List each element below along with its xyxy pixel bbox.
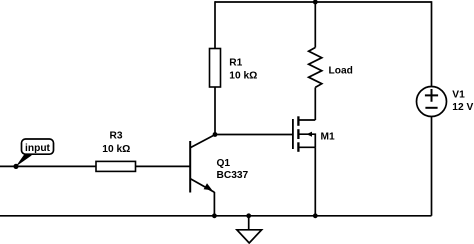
svg-text:R1: R1 bbox=[229, 58, 242, 69]
V1 plus sign bbox=[425, 89, 438, 102]
transistor Q1 collector diagonal bbox=[190, 135, 215, 148]
mosfet M1 channel bar bottom bbox=[297, 142, 299, 152]
node collector/gate junction bbox=[213, 132, 218, 137]
svg-text:10 kΩ: 10 kΩ bbox=[229, 71, 257, 82]
wire gate (node to M1 gate) bbox=[215, 134, 292, 136]
wire Q1 emitter down bbox=[213, 192, 215, 216]
svg-text:V1: V1 bbox=[452, 90, 465, 101]
wire Load branch top bbox=[314, 1, 316, 47]
mosfet M1 drain connection bbox=[298, 119, 315, 121]
svg-text:Load: Load bbox=[329, 65, 353, 76]
svg-text:M1: M1 bbox=[321, 131, 335, 142]
resistor R1 (box) bbox=[210, 49, 221, 88]
mosfet M1 source connection bbox=[298, 146, 315, 148]
wire top rail bbox=[215, 1, 432, 3]
wire V1 bottom bbox=[431, 116, 433, 215]
voltage source V1 circle bbox=[417, 87, 447, 117]
transistor Q1 base bar bbox=[189, 141, 191, 193]
ground symbol bbox=[237, 230, 262, 243]
junction dot top (Load/rail) bbox=[313, 0, 318, 4]
transistor Q1 emitter arrow bbox=[204, 183, 213, 190]
mosfet M1 channel bar top bbox=[297, 116, 299, 126]
wire R1 bottom to collector node bbox=[214, 87, 216, 135]
resistor R3 (box) bbox=[96, 161, 136, 171]
wire bottom ground rail bbox=[0, 215, 432, 217]
mosfet M1 gate bar bbox=[292, 119, 294, 149]
resistor Load (zigzag) bbox=[309, 48, 322, 88]
input flag tail bbox=[16, 154, 32, 167]
svg-text:R3: R3 bbox=[109, 131, 122, 142]
transistor Q1 emitter diagonal bbox=[190, 179, 214, 193]
V1 minus sign bbox=[425, 107, 437, 109]
wire R1 branch top bbox=[214, 1, 216, 48]
svg-text:10 kΩ: 10 kΩ bbox=[102, 144, 130, 155]
wire V1 top bbox=[431, 1, 433, 86]
input flag box bbox=[22, 139, 54, 154]
wire M1 source down bbox=[314, 147, 316, 216]
junction dot emitter/rail bbox=[212, 213, 217, 218]
wire Load bottom to M1 drain bbox=[314, 87, 316, 120]
node input dot bbox=[13, 164, 18, 169]
svg-text:BC337: BC337 bbox=[217, 170, 249, 181]
svg-text:12 V: 12 V bbox=[452, 102, 473, 113]
mosfet M1 bulk line bbox=[298, 134, 315, 147]
wire input / base bbox=[0, 165, 190, 167]
mosfet M1 bulk arrow bbox=[307, 132, 313, 137]
mosfet M1 channel bar middle bbox=[297, 129, 299, 139]
ground stub bbox=[248, 216, 250, 230]
svg-text:input: input bbox=[25, 143, 50, 154]
junction dot ground/rail bbox=[246, 213, 251, 218]
svg-text:Q1: Q1 bbox=[217, 158, 231, 169]
junction dot source/rail bbox=[313, 213, 318, 218]
